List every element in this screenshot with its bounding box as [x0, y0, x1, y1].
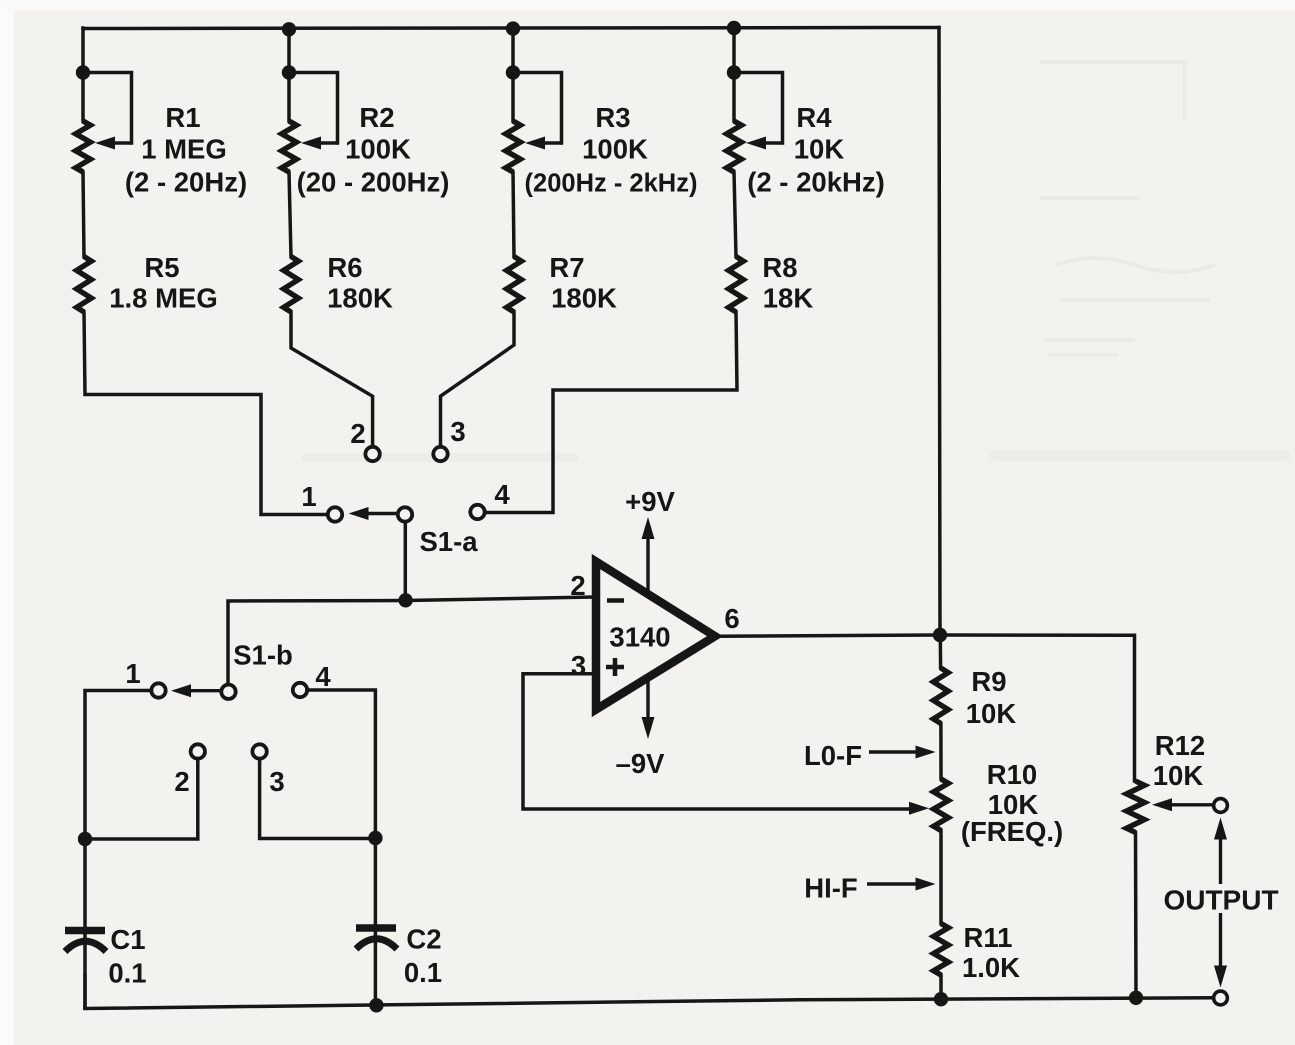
label S1-a — [419, 526, 478, 557]
node bottom rail / C2 — [369, 998, 383, 1012]
wire S1-b contact 4 to C2 — [307, 690, 375, 838]
power +9V arrow — [642, 517, 655, 593]
pin label 6 of U1 — [724, 603, 739, 634]
wire S1-a wiper down to inverting node — [404, 522, 408, 601]
node R1 wiper junction — [76, 65, 90, 79]
node bottom rail / R11 — [934, 992, 948, 1006]
svg-text:0.1: 0.1 — [404, 957, 442, 988]
svg-text:C2: C2 — [406, 924, 441, 955]
wire S1-b contact 1 to C1 — [85, 691, 152, 840]
svg-text:100K: 100K — [582, 134, 648, 165]
pin label 4 of S1-b — [315, 661, 331, 692]
wire op-amp output to R12 branch — [715, 635, 1135, 781]
svg-text:R6: R6 — [327, 252, 362, 283]
pin label 1 of S1-a — [301, 481, 316, 512]
svg-text:1.0K: 1.0K — [962, 952, 1020, 983]
output terminal top — [1214, 799, 1228, 813]
svg-text:R9: R9 — [971, 666, 1006, 697]
node C2 top junction — [368, 831, 382, 845]
node op-amp output / R9 — [933, 628, 947, 642]
svg-text:2: 2 — [174, 766, 189, 797]
svg-text:3140: 3140 — [609, 622, 670, 653]
label R11 — [964, 922, 1013, 953]
label R2 — [359, 102, 394, 133]
value 1 MEG of R1 — [141, 134, 227, 165]
wire branch R1 top — [81, 28, 85, 121]
svg-text:R4: R4 — [796, 102, 832, 133]
pin label 2 of S1-b — [174, 766, 189, 797]
svg-text:OUTPUT: OUTPUT — [1163, 885, 1278, 916]
resistor R11 body — [934, 924, 949, 976]
label +9V — [625, 486, 675, 517]
capacitor C2 bottom plate — [356, 939, 397, 949]
svg-text:3: 3 — [450, 416, 465, 447]
value 10K of R12 — [1153, 760, 1204, 791]
svg-text:R7: R7 — [549, 252, 584, 283]
svg-text:4: 4 — [315, 661, 331, 692]
output terminal bottom — [1214, 991, 1228, 1005]
value 1.0K of R11 — [962, 952, 1020, 983]
potentiometer R4 wiper loop — [734, 73, 783, 150]
value 0.1 of C2 — [404, 957, 442, 988]
switch S1-b contact 2 — [191, 744, 205, 758]
wire C1 top lead — [83, 839, 87, 1008]
svg-text:3: 3 — [571, 650, 586, 681]
resistor R9 body — [933, 668, 948, 724]
potentiometer R1 body — [76, 121, 91, 172]
svg-text:–9V: –9V — [616, 748, 666, 779]
wire S1-b contact 2 down — [85, 759, 198, 840]
svg-text:4: 4 — [494, 479, 510, 510]
label C2 — [406, 924, 441, 955]
svg-text:18K: 18K — [763, 283, 814, 314]
label HI-F — [804, 873, 857, 904]
label R9 — [971, 666, 1006, 697]
resistor R8 body — [729, 257, 744, 313]
node top rail / R4 branch — [727, 21, 741, 35]
arrow feedback into R10 wiper — [909, 802, 929, 815]
svg-text:180K: 180K — [327, 283, 393, 314]
value 100K of R2 — [345, 134, 411, 165]
label L0-F — [804, 740, 862, 771]
switch S1-a wiper arrow — [349, 507, 398, 520]
wire branch R3 top — [511, 28, 515, 121]
value 180K of R7 — [551, 283, 617, 314]
switch S1-b contact 4 — [293, 683, 307, 697]
svg-text:R10: R10 — [987, 759, 1037, 790]
svg-text:+9V: +9V — [625, 486, 675, 517]
wire inverting input bus — [228, 597, 593, 685]
label R8 — [762, 252, 797, 283]
svg-text:R12: R12 — [1155, 730, 1205, 761]
wire top rail — [83, 28, 939, 29]
pin label 4 of S1-a — [494, 479, 510, 510]
svg-text:100K: 100K — [345, 134, 411, 165]
wire R1 to R5 — [83, 172, 84, 257]
pin label 3 of S1-a — [450, 416, 465, 447]
wire R6 bottom to S1-a contact 2 — [291, 312, 373, 447]
switch S1-a contact 4 — [470, 505, 484, 519]
potentiometer R2 body — [282, 121, 297, 172]
wire bottom rail — [85, 998, 1213, 1009]
op-amp U1 3140 body — [596, 562, 715, 710]
svg-text:R8: R8 — [762, 252, 797, 283]
svg-text:R2: R2 — [359, 102, 394, 133]
svg-text:2: 2 — [570, 570, 585, 601]
range label (20 - 200Hz) — [297, 167, 450, 198]
svg-text:R1: R1 — [165, 102, 200, 133]
label R1 — [165, 102, 200, 133]
arrow output up — [1214, 818, 1227, 885]
svg-text:1: 1 — [301, 481, 316, 512]
pin label 3 of U1 — [571, 650, 586, 681]
wire R11 to bottom rail — [939, 975, 943, 1000]
label S1-b — [233, 640, 293, 671]
value 0.1 of C1 — [108, 958, 146, 989]
svg-text:2: 2 — [350, 418, 365, 449]
wire R12 wiper to output terminal — [1152, 798, 1212, 811]
switch S1-b wiper arrow — [171, 684, 221, 697]
op-amp plus sign — [606, 658, 624, 676]
resistor R6 body — [284, 257, 299, 313]
label 3140 — [609, 622, 670, 653]
capacitor C1 top plate — [65, 927, 105, 935]
node S1-a wiper / op-amp input junction — [398, 593, 412, 607]
range label (200Hz - 2kHz) — [525, 170, 698, 198]
wire R3 to R7 — [513, 172, 514, 257]
svg-text:(200Hz - 2kHz): (200Hz - 2kHz) — [525, 170, 698, 198]
node R3 wiper junction — [506, 65, 520, 79]
wire R12 to bottom rail — [1134, 833, 1138, 998]
wire R7 bottom to S1-a contact 3 — [441, 312, 515, 447]
switch S1-a wiper — [398, 507, 412, 521]
arrow output down — [1214, 913, 1227, 988]
switch S1-b wiper — [221, 685, 235, 699]
node bottom rail / R12 — [1129, 991, 1143, 1005]
potentiometer R1 wiper loop — [83, 73, 132, 150]
svg-text:1.8 MEG: 1.8 MEG — [109, 283, 218, 314]
node R2 wiper junction — [282, 65, 296, 79]
label R3 — [595, 102, 630, 133]
label R6 — [327, 252, 362, 283]
potentiometer R2 wiper loop — [289, 73, 338, 150]
wire R4 to R8 — [734, 172, 736, 257]
svg-text:C1: C1 — [110, 924, 145, 955]
label -9V — [616, 748, 666, 779]
pin label 3 of S1-b — [269, 766, 284, 797]
value 100K of R3 — [582, 134, 648, 165]
potentiometer R3 body — [506, 121, 521, 172]
value 10K of R10 — [988, 789, 1039, 820]
wire R9 to R10 — [939, 724, 943, 780]
value 10K of R4 — [794, 134, 845, 165]
potentiometer R3 wiper loop — [513, 73, 562, 150]
label R7 — [549, 252, 584, 283]
capacitor C1 bottom plate — [65, 941, 106, 951]
wire R5 bottom to S1-a contact 1 — [84, 312, 328, 515]
wire branch R4 top — [732, 28, 736, 121]
node top rail / R3 branch — [506, 21, 520, 35]
switch S1-a contact 3 — [433, 447, 447, 461]
potentiometer R10 body — [934, 779, 949, 831]
switch S1-b contact 3 — [252, 744, 266, 758]
value 18K of R8 — [763, 283, 814, 314]
node C1 top junction — [78, 832, 92, 846]
svg-text:3: 3 — [269, 766, 284, 797]
svg-text:1: 1 — [125, 658, 140, 689]
arrow L0-F — [869, 746, 936, 759]
wire non-inverting feedback — [523, 674, 916, 809]
svg-text:10K: 10K — [966, 698, 1017, 729]
power -9V arrow — [642, 677, 655, 739]
switch S1-a contact 2 — [365, 447, 379, 461]
resistor R7 body — [507, 257, 522, 313]
label R10 — [987, 759, 1037, 790]
range label (2 - 20kHz) — [747, 167, 885, 198]
svg-text:R11: R11 — [964, 922, 1013, 953]
resistor R5 body — [77, 257, 92, 313]
switch S1-a contact 1 — [328, 507, 342, 521]
label C1 — [110, 924, 145, 955]
wire C1 bottom lead — [83, 975, 87, 1008]
svg-text:(2 - 20Hz): (2 - 20Hz) — [125, 167, 247, 198]
label R4 — [796, 102, 832, 133]
pin label 2 of U1 — [570, 570, 585, 601]
wire R10 to R11 — [939, 831, 943, 924]
pin label 2 of S1-a — [350, 418, 365, 449]
wire S1-b contact 3 down — [260, 759, 376, 839]
value 1.8 MEG of R5 — [109, 283, 218, 314]
switch S1-b contact 1 — [151, 683, 165, 697]
op-amp minus sign — [607, 598, 624, 603]
arrow HI-F — [867, 878, 936, 891]
node R4 wiper junction — [727, 65, 741, 79]
svg-text:R3: R3 — [595, 102, 630, 133]
wire R2 to R6 — [289, 172, 291, 257]
svg-text:6: 6 — [724, 603, 739, 634]
svg-text:1 MEG: 1 MEG — [141, 134, 227, 165]
label (FREQ.) — [961, 816, 1063, 847]
svg-text:S1-a: S1-a — [419, 526, 478, 557]
svg-text:(20 - 200Hz): (20 - 200Hz) — [297, 167, 450, 198]
svg-text:10K: 10K — [794, 134, 845, 165]
range label (2 - 20Hz) — [125, 167, 247, 198]
capacitor C2 top plate — [356, 924, 396, 932]
svg-text:S1-b: S1-b — [233, 640, 293, 671]
svg-text:(2 - 20kHz): (2 - 20kHz) — [747, 167, 885, 198]
wire output node down to R9 — [939, 635, 943, 668]
svg-text:R5: R5 — [144, 252, 179, 283]
value 180K of R6 — [327, 283, 393, 314]
wire R8 bottom to S1-a contact 4 — [485, 312, 737, 513]
wire C2 top lead — [374, 838, 378, 1006]
pin label 1 of S1-b — [125, 658, 140, 689]
svg-text:10K: 10K — [1153, 760, 1204, 791]
wire right main vertical (top rail to output node) — [939, 28, 940, 636]
value 10K of R9 — [966, 698, 1017, 729]
faint bleed-through marks — [302, 62, 1290, 462]
svg-text:(FREQ.): (FREQ.) — [961, 816, 1063, 847]
label R5 — [144, 252, 179, 283]
label R12 — [1155, 730, 1205, 761]
label OUTPUT — [1163, 885, 1278, 916]
potentiometer R4 body — [727, 121, 742, 172]
wire branch R2 top — [287, 28, 291, 121]
svg-text:L0-F: L0-F — [804, 740, 862, 771]
svg-text:HI-F: HI-F — [804, 873, 857, 904]
svg-text:0.1: 0.1 — [108, 958, 146, 989]
node top rail / R2 branch — [282, 22, 296, 36]
svg-text:180K: 180K — [551, 283, 617, 314]
potentiometer R12 body — [1127, 781, 1145, 833]
